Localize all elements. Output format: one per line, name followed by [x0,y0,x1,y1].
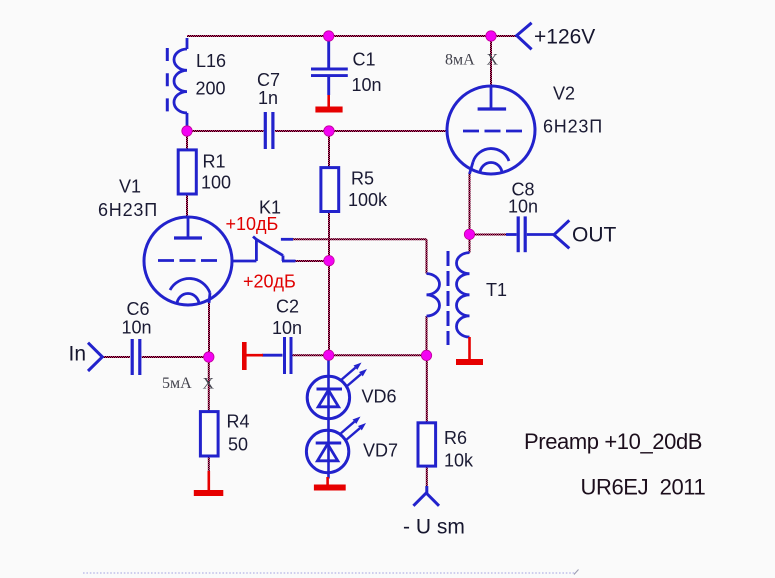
svg-text:V1: V1 [119,177,141,197]
svg-text:10n: 10n [508,197,538,217]
wire K1 lower contact to junction [294,260,329,262]
capacitor C2 [262,337,291,374]
wire C6 to junction [142,356,209,358]
wire R1 bottom lead [186,194,188,217]
svg-text:100: 100 [201,173,231,193]
wire R4 bottom lead [208,456,210,473]
ground R4 [194,471,224,493]
svg-text:Preamp +10_20dB: Preamp +10_20dB [524,429,702,454]
svg-text:+20дБ: +20дБ [243,272,296,292]
resistor R6 [418,423,436,466]
svg-text:1n: 1n [258,88,278,108]
svg-text:100k: 100k [348,190,388,210]
svg-text:L16: L16 [196,51,226,71]
inductor L16 core dashed line [166,48,169,112]
wire R6 bottom lead [426,466,428,486]
node junction C6 [204,352,214,362]
svg-text:UR6EJ 2011: UR6EJ 2011 [581,475,706,500]
capacitor C8 [506,216,554,252]
svg-text:+10дБ: +10дБ [226,214,279,234]
LED VD6 [307,355,367,478]
wire In arrow to C6 [103,356,130,358]
transformer T1 right coil [456,253,469,337]
capacitor C7 [265,112,273,149]
svg-text:C7: C7 [257,70,280,90]
ground C1 [315,95,342,110]
resistor R4 [200,412,218,456]
wire C8 junction to cap [470,234,507,236]
switch K1 [233,237,296,262]
wire R5 bottom lead [328,212,330,261]
svg-text:- U sm: - U sm [403,516,465,539]
node junction top C1 [324,31,334,41]
wire top rail [187,35,517,37]
svg-text:5мА: 5мА [162,375,192,392]
svg-text:R4: R4 [227,412,250,432]
wire T1 left coil bottom to junction [426,316,428,355]
wire R4 top lead [208,357,210,412]
wire second rail (right of C7) [275,130,447,132]
wire R1 top lead [186,131,188,150]
terminal In arrow [88,343,102,371]
svg-text:R5: R5 [351,169,374,189]
svg-text:V2: V2 [553,84,575,104]
terminal -Usm arrow [413,486,439,506]
svg-text:In: In [69,343,87,366]
terminal OUT arrow [554,220,569,248]
svg-text:VD7: VD7 [363,441,398,461]
transformer T1 left coil [427,274,440,316]
wire T1 junction to R6 [426,355,428,422]
node junction K1 [324,256,334,266]
terminal +126V arrow [517,23,532,50]
wire R5 top lead [328,131,330,168]
svg-text:C2: C2 [276,297,299,317]
tube V2 [447,86,535,174]
svg-text:200: 200 [196,79,226,99]
svg-text:50: 50 [228,435,248,455]
wire R5 junction to C2 junction [328,261,330,356]
wire V1 cathode drop [208,301,210,357]
inductor L16 [174,38,187,129]
capacitor C6 [132,339,140,375]
node junction top V2 [486,31,496,41]
wire V2 cathode lead [469,173,471,234]
capacitor C1 [311,40,348,95]
wire C2 to junction [293,354,329,356]
wire V1 grid stub [232,260,235,262]
page border tick [574,570,579,575]
transformer T1 core dashed line [447,251,450,345]
svg-text:10n: 10n [352,75,382,95]
wire K1 upper contact to T1 [293,238,427,240]
svg-text:8мА: 8мА [445,51,475,68]
svg-text:10k: 10k [444,451,474,471]
svg-text:X: X [203,375,215,392]
wire V2 cathode junction to T1 right coil [469,234,471,252]
tube V1 [144,217,232,305]
svg-text:C1: C1 [353,50,376,70]
ground terminal C2 (rotated) [244,342,263,370]
svg-text:X: X [487,52,499,69]
svg-text:+126V: +126V [534,26,595,49]
svg-text:T1: T1 [486,280,507,300]
node junction R5 top [324,126,334,136]
svg-text:10n: 10n [122,318,152,338]
ground VD7 [314,477,346,488]
node junction C2 [324,350,334,360]
svg-text:OUT: OUT [572,224,617,247]
wire second rail (left of C7) [187,130,264,132]
svg-text:10n: 10n [272,318,302,338]
resistor R5 [321,168,339,212]
svg-text:VD6: VD6 [362,387,397,407]
ground T1 [456,337,483,362]
node junction L16 bottom [182,126,192,136]
svg-text:R6: R6 [444,428,467,448]
node junction V2 cathode [464,229,474,239]
wire T1 left coil top drop [426,239,428,273]
node junction T1 [421,350,431,360]
svg-text:6Н23П: 6Н23П [543,117,603,137]
resistor R1 [178,150,196,194]
wire C2 junction to T1 junction [329,354,427,356]
page border dotted line [83,572,575,574]
LED VD7 [306,417,366,473]
svg-text:C6: C6 [127,299,150,319]
svg-text:R1: R1 [203,152,226,172]
svg-text:6Н23П: 6Н23П [98,200,158,220]
wire V2 plate drop [490,36,492,86]
